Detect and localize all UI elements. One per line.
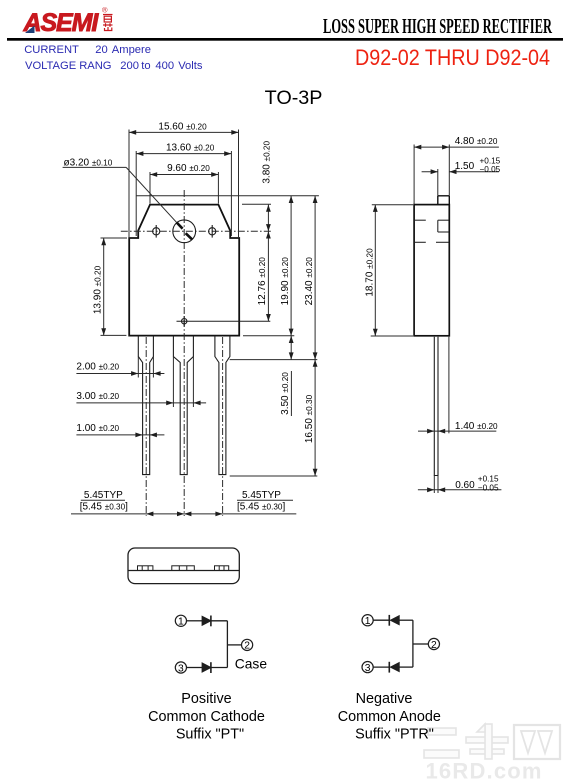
bottom view parting line xyxy=(128,570,239,572)
bottom view pin 3 section xyxy=(215,566,229,571)
svg-text:ø3.20 ±0.10: ø3.20 ±0.10 xyxy=(64,157,113,168)
header rule xyxy=(7,38,563,41)
dimension 13.60 xyxy=(136,153,231,155)
dimension 1.40 xyxy=(418,430,496,432)
dimension 12.76 xyxy=(267,231,269,321)
svg-text:3.80 ±0.20: 3.80 ±0.20 xyxy=(261,141,272,184)
svg-text:Ampere: Ampere xyxy=(112,44,151,56)
svg-text:16.50 ±0.30: 16.50 ±0.30 xyxy=(304,394,315,443)
diode D2 xyxy=(202,662,211,673)
wire xyxy=(373,619,389,621)
body bottom right extension xyxy=(243,335,294,337)
front view tab left edge / 13.60 extension xyxy=(135,151,137,236)
svg-text:LOSS SUPER HIGH SPEED RECTIFIE: LOSS SUPER HIGH SPEED RECTIFIER xyxy=(323,14,552,38)
wire to pin 2 xyxy=(227,644,241,646)
common anode bus wire xyxy=(412,620,414,667)
svg-text:+0.15: +0.15 xyxy=(478,475,499,484)
svg-text:−0.05: −0.05 xyxy=(480,165,501,174)
svg-text:TO-3P: TO-3P xyxy=(265,87,323,109)
vertical centerline xyxy=(183,190,185,516)
svg-text:CURRENT: CURRENT xyxy=(24,44,79,56)
pin marker 1 xyxy=(362,615,373,626)
pin 2 leg xyxy=(173,336,193,475)
svg-text:[5.45 ±0.30]: [5.45 ±0.30] xyxy=(237,502,285,513)
svg-text:3: 3 xyxy=(365,663,371,674)
svg-text:4.80 ±0.20: 4.80 ±0.20 xyxy=(455,136,498,147)
diode D4 xyxy=(389,662,399,673)
dimension 18.70 xyxy=(371,205,413,336)
svg-text:Volts: Volts xyxy=(178,60,203,72)
front view tab right edge / 13.60 extension xyxy=(230,151,232,236)
svg-text:Suffix "PTR": Suffix "PTR" xyxy=(355,727,434,743)
front view body outline xyxy=(129,205,239,336)
front view tab top edge xyxy=(136,195,319,197)
bottom view pin 2 section xyxy=(172,566,195,571)
horizontal centerline through holes xyxy=(121,230,271,232)
svg-text:200: 200 xyxy=(120,60,139,72)
svg-text:to: to xyxy=(141,60,150,72)
pin 1 leg xyxy=(138,336,153,475)
svg-text:Positive: Positive xyxy=(181,691,231,707)
wire xyxy=(399,666,413,668)
svg-text:12.76 ±0.20: 12.76 ±0.20 xyxy=(257,257,268,306)
dimension 13.90 xyxy=(101,238,128,335)
spec line CURRENT xyxy=(24,44,151,56)
svg-text:Negative: Negative xyxy=(356,691,413,707)
svg-text:1: 1 xyxy=(365,616,371,627)
watermark graphic xyxy=(424,724,560,759)
svg-text:1: 1 xyxy=(178,617,184,628)
side body right lower extension xyxy=(448,337,450,434)
mounting hole xyxy=(173,220,196,243)
svg-text:9.60 ±0.20: 9.60 ±0.20 xyxy=(167,163,210,174)
dimension 4.80 xyxy=(414,145,499,205)
pin marker 3 xyxy=(362,662,373,673)
pin marker 3 xyxy=(175,662,186,673)
svg-text:23.40 ±0.20: 23.40 ±0.20 xyxy=(304,257,315,306)
wire xyxy=(187,620,203,622)
svg-text:2: 2 xyxy=(431,640,437,651)
svg-text:0.60: 0.60 xyxy=(455,480,475,491)
wire xyxy=(373,666,389,668)
wire xyxy=(187,667,203,669)
svg-text:Suffix "PT": Suffix "PT" xyxy=(176,727,244,743)
svg-text:18.70 ±0.20: 18.70 ±0.20 xyxy=(364,248,375,297)
svg-text:Common Anode: Common Anode xyxy=(338,709,441,725)
svg-text:19.90 ±0.20: 19.90 ±0.20 xyxy=(280,257,291,306)
wire xyxy=(211,667,228,669)
bottom pilot hole xyxy=(177,316,271,327)
dimension 16.50 xyxy=(314,360,316,476)
svg-text:15.60 ±0.20: 15.60 ±0.20 xyxy=(158,122,207,133)
svg-text:20: 20 xyxy=(95,44,107,56)
shoulder end extension line xyxy=(230,359,318,361)
svg-text:®: ® xyxy=(102,6,108,15)
logo ASEMI xyxy=(23,6,113,38)
svg-text:1.40 ±0.20: 1.40 ±0.20 xyxy=(455,421,498,432)
wire to pin 2 xyxy=(413,643,428,645)
pin 3 leg xyxy=(215,336,230,475)
dimension 3.80 xyxy=(267,205,269,232)
diode D1 xyxy=(202,616,211,627)
svg-text:13.90 ±0.20: 13.90 ±0.20 xyxy=(93,265,104,314)
svg-text:400: 400 xyxy=(155,60,174,72)
side view hidden hole lines xyxy=(415,220,449,242)
svg-text:1.00 ±0.20: 1.00 ±0.20 xyxy=(76,423,119,434)
bottom view outline xyxy=(128,548,239,584)
svg-text:VOLTAGE: VOLTAGE xyxy=(25,60,76,72)
side view tab top xyxy=(438,196,450,205)
svg-text:2: 2 xyxy=(244,641,250,652)
svg-text:16RD.com: 16RD.com xyxy=(426,759,543,781)
svg-text:−0.05: −0.05 xyxy=(478,484,499,493)
svg-text:5.45TYP: 5.45TYP xyxy=(84,490,123,501)
side view body outline xyxy=(414,205,449,336)
wire xyxy=(399,619,413,621)
svg-text:Case: Case xyxy=(235,657,268,672)
wire xyxy=(211,620,228,622)
pin 1 centerline xyxy=(145,337,147,516)
svg-text:13.60 ±0.20: 13.60 ±0.20 xyxy=(166,142,215,153)
svg-text:2.00 ±0.20: 2.00 ±0.20 xyxy=(76,362,119,373)
common cathode bus wire xyxy=(226,621,228,668)
body top right extension xyxy=(242,203,271,205)
diode D3 xyxy=(389,615,399,626)
pin marker 1 xyxy=(175,615,186,626)
lead end extension line xyxy=(230,475,318,477)
side view lead xyxy=(434,337,438,476)
svg-text:D92-02 THRU D92-04: D92-02 THRU D92-04 xyxy=(355,45,550,70)
svg-text:3.50 ±0.20: 3.50 ±0.20 xyxy=(280,372,291,415)
svg-text:5.45TYP: 5.45TYP xyxy=(242,490,281,501)
dimension 9.60 xyxy=(150,172,218,204)
dimension 15.60 xyxy=(129,130,239,239)
small hole right xyxy=(209,225,216,238)
svg-text:Common Cathode: Common Cathode xyxy=(148,709,265,725)
svg-text:[5.45 ±0.30]: [5.45 ±0.30] xyxy=(80,502,128,513)
pin 3 centerline xyxy=(222,337,224,516)
small hole left xyxy=(153,225,160,238)
svg-text:RANG: RANG xyxy=(79,60,111,72)
pin marker 2 xyxy=(242,639,253,650)
dimension 5.45 line xyxy=(71,513,296,515)
spec line VOLTAGE RANG xyxy=(25,60,203,72)
dimension 0.60 xyxy=(418,476,502,494)
pin marker 2 xyxy=(428,638,439,649)
dimension 19.90 xyxy=(290,196,292,336)
svg-text:3: 3 xyxy=(178,663,184,674)
svg-text:1.50: 1.50 xyxy=(455,161,475,172)
bottom view pin 1 section xyxy=(138,566,153,571)
dimension 3.50 xyxy=(290,336,292,360)
svg-text:3.00 ±0.20: 3.00 ±0.20 xyxy=(76,391,119,402)
dimension 1.50 xyxy=(422,169,499,196)
dimension 23.40 xyxy=(314,196,316,360)
